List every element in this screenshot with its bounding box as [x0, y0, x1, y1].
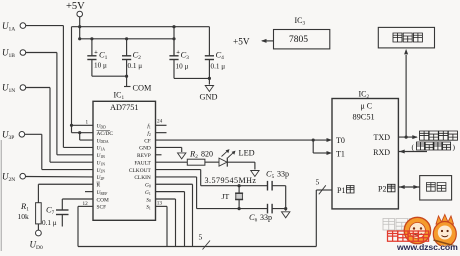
- svg-text:R2: R2: [189, 149, 198, 161]
- svg-text:RXD: RXD: [373, 148, 390, 157]
- svg-text:UDDA: UDDA: [97, 138, 109, 144]
- svg-text:C2: C2: [133, 50, 142, 62]
- svg-text:UREF: UREF: [97, 190, 108, 196]
- svg-text:f2: f2: [147, 130, 151, 137]
- svg-text:P1: P1: [337, 186, 345, 195]
- svg-text:U1B: U1B: [2, 48, 15, 60]
- svg-text:3.579545MHz: 3.579545MHz: [205, 176, 257, 185]
- svg-text:G0: G0: [145, 183, 151, 189]
- svg-text:COM: COM: [133, 84, 153, 93]
- svg-text:REVP: REVP: [137, 153, 151, 159]
- svg-text:AC/DC: AC/DC: [97, 131, 114, 137]
- svg-text:UDD: UDD: [97, 124, 107, 130]
- svg-text:SCF: SCF: [97, 205, 107, 211]
- svg-text:33p: 33p: [260, 213, 272, 222]
- svg-text:0.1 μ: 0.1 μ: [211, 63, 226, 71]
- svg-text:U1N: U1N: [2, 83, 15, 95]
- svg-text:5: 5: [199, 233, 203, 242]
- svg-text:0.1 μ: 0.1 μ: [42, 219, 57, 227]
- svg-text:10 μ: 10 μ: [176, 63, 189, 71]
- svg-text:www.dzsc.com: www.dzsc.com: [396, 242, 458, 251]
- svg-text:JT: JT: [222, 192, 230, 201]
- svg-text:T1: T1: [336, 150, 345, 159]
- svg-text:U1B: U1B: [97, 153, 106, 159]
- svg-text:UD0: UD0: [30, 240, 43, 252]
- svg-text:89C51: 89C51: [353, 113, 375, 122]
- svg-text:FAULT: FAULT: [134, 160, 151, 166]
- svg-text:TXD: TXD: [374, 133, 391, 142]
- svg-text:820: 820: [201, 150, 213, 159]
- svg-text:G1: G1: [145, 190, 151, 196]
- svg-text:C4: C4: [216, 50, 225, 62]
- svg-text:CF: CF: [144, 138, 151, 144]
- svg-text:R: R: [97, 183, 101, 189]
- svg-text:GND: GND: [200, 93, 218, 102]
- svg-text:10k: 10k: [18, 212, 30, 221]
- svg-text:+: +: [94, 49, 98, 56]
- svg-text:S1: S1: [146, 205, 151, 211]
- svg-text:IC1: IC1: [114, 91, 125, 102]
- svg-text:0.1 μ: 0.1 μ: [128, 62, 143, 70]
- svg-text:33p: 33p: [277, 170, 289, 179]
- svg-text:C5: C5: [266, 169, 275, 181]
- svg-text:CLKIN: CLKIN: [134, 175, 151, 181]
- svg-text:C3: C3: [181, 50, 190, 62]
- svg-text:(: (: [412, 143, 415, 152]
- svg-text:C6: C6: [249, 212, 258, 224]
- svg-text:24: 24: [157, 119, 163, 125]
- svg-text:AD7751: AD7751: [110, 103, 139, 112]
- svg-text:U1A: U1A: [2, 21, 15, 33]
- svg-text:U2N: U2N: [2, 171, 15, 183]
- svg-text:IC3: IC3: [295, 16, 306, 27]
- svg-text:f1: f1: [147, 123, 151, 130]
- svg-text:μ C: μ C: [361, 102, 373, 111]
- svg-text:T0: T0: [336, 136, 345, 145]
- svg-text:13: 13: [157, 201, 163, 207]
- svg-text:7805: 7805: [289, 35, 308, 45]
- svg-text:IC2: IC2: [359, 90, 370, 101]
- svg-text:1: 1: [86, 120, 89, 126]
- svg-text:C7: C7: [46, 205, 55, 217]
- svg-text:COM: COM: [97, 197, 109, 203]
- svg-text:+5V: +5V: [233, 37, 250, 47]
- svg-text:10 μ: 10 μ: [94, 62, 107, 70]
- svg-text:C1: C1: [99, 50, 108, 62]
- svg-text:CLKOUT: CLKOUT: [129, 168, 152, 174]
- svg-text:U2P: U2P: [97, 175, 105, 181]
- svg-text:U1N: U1N: [97, 160, 106, 166]
- svg-text:S0: S0: [146, 197, 151, 203]
- svg-text:U2N: U2N: [97, 168, 106, 174]
- svg-text:LED: LED: [239, 149, 255, 158]
- svg-text:R1: R1: [20, 201, 29, 213]
- svg-text:): ): [453, 143, 456, 152]
- svg-text:P2: P2: [378, 185, 386, 194]
- svg-text:U1A: U1A: [97, 146, 106, 152]
- svg-text:+5V: +5V: [66, 1, 85, 12]
- svg-text:5: 5: [316, 178, 320, 187]
- svg-text:GND: GND: [139, 146, 151, 152]
- svg-text:U3P: U3P: [2, 130, 14, 142]
